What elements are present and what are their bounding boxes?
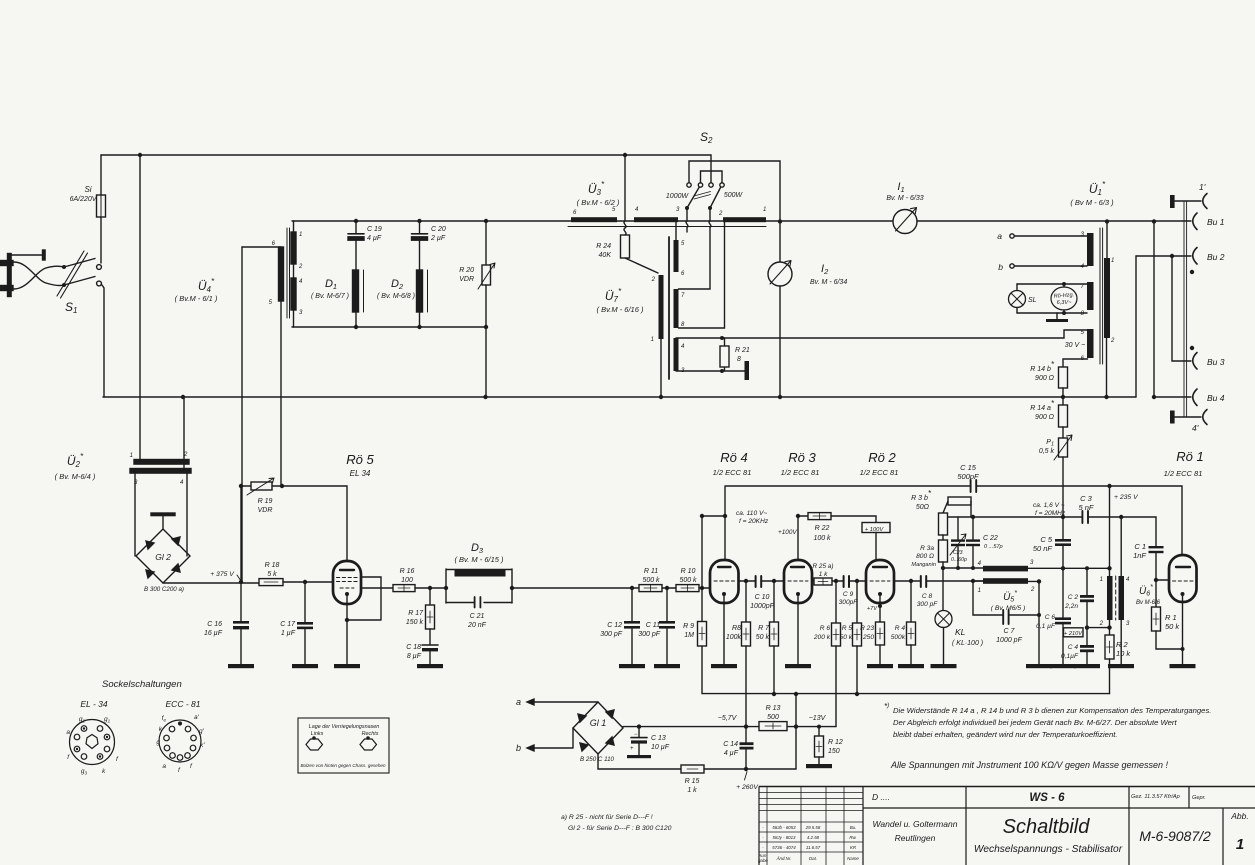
svg-text:800 Ω: 800 Ω bbox=[916, 553, 934, 560]
svg-text:M-6-9087/2: M-6-9087/2 bbox=[1139, 828, 1211, 844]
svg-text:2: 2 bbox=[1099, 621, 1104, 627]
svg-text:4: 4 bbox=[635, 207, 639, 213]
svg-text:3: 3 bbox=[299, 310, 303, 316]
svg-text:1nF: 1nF bbox=[1133, 551, 1146, 560]
svg-text:100 k: 100 k bbox=[813, 535, 831, 542]
svg-text:( Bv. M6/5 ): ( Bv. M6/5 ) bbox=[991, 605, 1026, 612]
svg-text:R 23: R 23 bbox=[860, 625, 874, 632]
svg-text:40K: 40K bbox=[599, 252, 612, 259]
svg-text:B 300 C200 a): B 300 C200 a) bbox=[144, 586, 184, 593]
svg-text:500W: 500W bbox=[724, 192, 744, 199]
svg-text:f = 20KHz: f = 20KHz bbox=[739, 518, 769, 525]
svg-text:( Bv. M - 6/15 ): ( Bv. M - 6/15 ) bbox=[454, 555, 504, 564]
svg-text:1000W: 1000W bbox=[666, 193, 690, 200]
svg-text:Rö 3: Rö 3 bbox=[788, 450, 816, 465]
svg-text:-: - bbox=[762, 845, 764, 850]
svg-text:C 17: C 17 bbox=[280, 621, 296, 628]
svg-text:8: 8 bbox=[681, 322, 685, 328]
svg-text:500 k: 500 k bbox=[679, 577, 697, 584]
svg-text:1 k: 1 k bbox=[819, 571, 828, 578]
svg-text:R 10: R 10 bbox=[681, 568, 696, 575]
svg-text:Si: Si bbox=[84, 185, 91, 194]
svg-text:C23: C23 bbox=[953, 550, 963, 556]
svg-text:Bv M-6/6: Bv M-6/6 bbox=[1136, 600, 1161, 606]
svg-text:16 µF: 16 µF bbox=[204, 630, 223, 637]
svg-text:R 16: R 16 bbox=[400, 568, 415, 575]
svg-text:6A/220V: 6A/220V bbox=[70, 196, 98, 203]
svg-text:C 22: C 22 bbox=[983, 535, 998, 542]
svg-text:0,1µF: 0,1µF bbox=[1061, 653, 1079, 660]
svg-text:2,2n: 2,2n bbox=[1064, 603, 1078, 610]
svg-text:3: 3 bbox=[1126, 621, 1130, 627]
svg-text:300 pF: 300 pF bbox=[638, 631, 661, 638]
svg-text:C 9: C 9 bbox=[843, 591, 854, 598]
svg-text:Ü5*: Ü5* bbox=[1003, 590, 1017, 604]
svg-text:5: 5 bbox=[1081, 330, 1085, 336]
svg-text:R 7: R 7 bbox=[758, 625, 770, 632]
svg-text:Gl 2 - für Serie D---F : B: Gl 2 - für Serie D---F : B 300 C120 bbox=[568, 825, 672, 832]
svg-text:4: 4 bbox=[978, 561, 982, 567]
svg-text:500: 500 bbox=[767, 714, 779, 721]
svg-text:C 15: C 15 bbox=[960, 463, 977, 472]
svg-text:Die Widerstände R 14 a , R 14: Die Widerstände R 14 a , R 14 b und R 3 … bbox=[893, 706, 1211, 715]
svg-text:Ü2*: Ü2* bbox=[67, 452, 84, 469]
svg-text:R 2: R 2 bbox=[1116, 640, 1129, 649]
svg-text:Bu 2: Bu 2 bbox=[1207, 252, 1225, 262]
svg-text:D1: D1 bbox=[325, 278, 337, 291]
svg-text:ca. 1,6 V ~: ca. 1,6 V ~ bbox=[1033, 502, 1065, 509]
svg-text:2: 2 bbox=[1030, 587, 1035, 593]
svg-text:Ü3*: Ü3* bbox=[588, 180, 605, 197]
svg-text:f = 20MHz: f = 20MHz bbox=[1035, 510, 1066, 517]
svg-text:1: 1 bbox=[651, 337, 654, 343]
svg-text:-: - bbox=[762, 835, 764, 840]
svg-text:150 k: 150 k bbox=[406, 619, 424, 626]
svg-text:Sockelschaltungen: Sockelschaltungen bbox=[102, 679, 182, 690]
svg-text:5736 - 4074: 5736 - 4074 bbox=[772, 845, 796, 850]
svg-text:*): *) bbox=[884, 702, 889, 711]
svg-text:f: f bbox=[178, 767, 181, 774]
svg-text:1: 1 bbox=[978, 588, 981, 594]
svg-text:3: 3 bbox=[676, 207, 680, 213]
svg-text:1/2 ECC 81: 1/2 ECC 81 bbox=[781, 468, 820, 477]
svg-text:D2: D2 bbox=[391, 278, 404, 291]
svg-text:R 17: R 17 bbox=[408, 610, 424, 617]
svg-text:300 pF: 300 pF bbox=[600, 631, 623, 638]
svg-text:a: a bbox=[162, 763, 166, 770]
svg-text:Rö 4: Rö 4 bbox=[720, 450, 747, 465]
svg-text:1: 1 bbox=[299, 232, 302, 238]
svg-text:C 16: C 16 bbox=[207, 621, 222, 628]
svg-text:C 3: C 3 bbox=[1080, 494, 1093, 503]
svg-text:100: 100 bbox=[401, 577, 413, 584]
svg-text:C 2: C 2 bbox=[1068, 594, 1079, 601]
svg-text:900 Ω: 900 Ω bbox=[1035, 414, 1055, 421]
svg-text:R 11: R 11 bbox=[644, 568, 658, 575]
svg-text:R 13: R 13 bbox=[766, 705, 781, 712]
svg-text:g3: g3 bbox=[81, 768, 88, 776]
svg-text:6: 6 bbox=[573, 210, 577, 216]
svg-text:C 4: C 4 bbox=[1068, 644, 1079, 651]
svg-text:250: 250 bbox=[862, 634, 874, 641]
svg-text:300 pF: 300 pF bbox=[917, 601, 939, 608]
svg-text:R 4: R 4 bbox=[895, 625, 906, 632]
svg-text:+ 235 V: + 235 V bbox=[1114, 494, 1139, 501]
svg-text:R 6: R 6 bbox=[820, 625, 831, 632]
svg-text:gabe: gabe bbox=[758, 858, 768, 863]
svg-text:1 µF: 1 µF bbox=[281, 630, 296, 637]
svg-text:f: f bbox=[190, 763, 193, 770]
svg-text:8: 8 bbox=[737, 356, 741, 363]
svg-text:( Bv.M - 6/1 ): ( Bv.M - 6/1 ) bbox=[175, 294, 218, 303]
svg-text:1': 1' bbox=[1199, 182, 1206, 192]
svg-text:+7V: +7V bbox=[867, 606, 878, 612]
svg-text:Ü4*: Ü4* bbox=[198, 277, 215, 294]
svg-text:Abb.: Abb. bbox=[1230, 811, 1249, 821]
svg-text:30 V ~: 30 V ~ bbox=[1065, 342, 1085, 349]
svg-text:Rö 1: Rö 1 bbox=[1176, 449, 1203, 464]
svg-text:C 19: C 19 bbox=[367, 226, 382, 233]
svg-text:+ 260V: + 260V bbox=[736, 784, 759, 791]
svg-text:3: 3 bbox=[1030, 560, 1034, 566]
svg-text:+: + bbox=[630, 746, 634, 752]
svg-text:R 19: R 19 bbox=[258, 498, 273, 505]
svg-text:R 9: R 9 bbox=[683, 623, 694, 630]
svg-text:C 12: C 12 bbox=[607, 622, 622, 629]
svg-text:C 6: C 6 bbox=[1045, 614, 1056, 621]
svg-text:200 k: 200 k bbox=[813, 634, 831, 641]
svg-text:g1: g1 bbox=[104, 716, 111, 724]
svg-text:g': g' bbox=[199, 728, 205, 735]
svg-text:Lage der Verriegelungsnasen: Lage der Verriegelungsnasen bbox=[309, 724, 380, 730]
svg-text:S2: S2 bbox=[700, 130, 713, 145]
svg-text:Ü7*: Ü7* bbox=[605, 287, 622, 304]
svg-text:1: 1 bbox=[130, 453, 133, 459]
svg-text:( Bv.M - 6/2 ): ( Bv.M - 6/2 ) bbox=[577, 198, 620, 207]
svg-text:8: 8 bbox=[1081, 311, 1085, 317]
svg-text:R 18: R 18 bbox=[265, 562, 280, 569]
svg-text:1/2 ECC 81: 1/2 ECC 81 bbox=[713, 468, 752, 477]
svg-text:b: b bbox=[998, 262, 1003, 272]
svg-text:8 µF: 8 µF bbox=[407, 653, 422, 660]
svg-text:SL: SL bbox=[1028, 297, 1037, 304]
svg-text:50 nF: 50 nF bbox=[1033, 544, 1053, 553]
svg-text:Wechselspannungs - Stabilisato: Wechselspannungs - Stabilisator bbox=[974, 844, 1123, 855]
svg-text:50 k: 50 k bbox=[840, 634, 853, 641]
svg-text:Gez. 11.3.57 Kfr/Ap: Gez. 11.3.57 Kfr/Ap bbox=[1131, 794, 1180, 800]
svg-text:VDR: VDR bbox=[258, 507, 273, 514]
svg-text:B 250 C 110: B 250 C 110 bbox=[580, 756, 614, 763]
svg-text:1000pF: 1000pF bbox=[750, 603, 774, 610]
svg-text:4 µF: 4 µF bbox=[367, 235, 382, 242]
svg-text:1/2 ECC 81: 1/2 ECC 81 bbox=[1164, 469, 1203, 478]
svg-text:500pF: 500pF bbox=[957, 472, 979, 481]
svg-text:b: b bbox=[516, 743, 521, 753]
svg-text:fe: fe bbox=[162, 715, 167, 723]
svg-text:Reutlingen: Reutlingen bbox=[895, 833, 936, 843]
svg-text:4.2.58: 4.2.58 bbox=[807, 835, 820, 840]
svg-text:( Bv. M-6/4 ): ( Bv. M-6/4 ) bbox=[55, 472, 96, 481]
svg-text:900 Ω: 900 Ω bbox=[1035, 375, 1055, 382]
svg-text:0 ...57p: 0 ...57p bbox=[984, 544, 1003, 550]
svg-text:P1: P1 bbox=[1046, 439, 1054, 448]
svg-text:Dat.: Dat. bbox=[809, 856, 817, 861]
svg-text:a': a' bbox=[194, 714, 200, 721]
svg-text:Ü1*: Ü1* bbox=[1089, 180, 1106, 197]
svg-text:4: 4 bbox=[299, 279, 303, 285]
svg-text:Bv. M - 6/33: Bv. M - 6/33 bbox=[886, 195, 923, 202]
svg-text:C 11: C 11 bbox=[646, 622, 660, 629]
svg-text:1: 1 bbox=[1100, 577, 1103, 583]
svg-text:C 10: C 10 bbox=[755, 594, 770, 601]
svg-text:g2: g2 bbox=[79, 716, 86, 724]
svg-text:R 3a: R 3a bbox=[920, 545, 934, 552]
svg-text:D3: D3 bbox=[471, 542, 484, 555]
svg-text:2: 2 bbox=[651, 277, 656, 283]
svg-text:Ü6*: Ü6* bbox=[1139, 584, 1153, 598]
svg-text:bleibt dabei erhalten, geänder: bleibt dabei erhalten, geändert wird nur… bbox=[893, 730, 1118, 739]
svg-text:Alle Spannungen mit Jnstrument: Alle Spannungen mit Jnstrument 100 KΩ/V … bbox=[890, 760, 1169, 770]
svg-text:( KL·100 ): ( KL·100 ) bbox=[952, 640, 983, 647]
svg-text:Bu.: Bu. bbox=[850, 825, 857, 830]
svg-text:1: 1 bbox=[763, 207, 766, 213]
svg-text:Name: Name bbox=[847, 856, 859, 861]
svg-text:50 k: 50 k bbox=[756, 634, 770, 641]
svg-text:+ 210V: + 210V bbox=[1064, 631, 1083, 637]
svg-text:( Bv. M-6/8 ): ( Bv. M-6/8 ) bbox=[377, 293, 415, 300]
svg-text:C 8: C 8 bbox=[922, 593, 933, 600]
svg-text:5: 5 bbox=[612, 207, 616, 213]
svg-text:1M: 1M bbox=[684, 632, 694, 639]
svg-text:R 14 a*: R 14 a* bbox=[1030, 399, 1055, 412]
svg-text:f: f bbox=[116, 756, 119, 763]
svg-text:2: 2 bbox=[718, 211, 723, 217]
svg-text:Rw.: Rw. bbox=[849, 835, 856, 840]
svg-text:Rö 2: Rö 2 bbox=[868, 450, 896, 465]
svg-text:1: 1 bbox=[1111, 258, 1114, 264]
svg-text:k': k' bbox=[200, 742, 205, 749]
svg-text:29.5.58: 29.5.58 bbox=[805, 825, 821, 830]
svg-text:Änd.Nr.: Änd.Nr. bbox=[776, 856, 792, 861]
svg-text:R 5: R 5 bbox=[842, 625, 853, 632]
svg-text:ca. 110 V~: ca. 110 V~ bbox=[736, 510, 767, 517]
svg-text:f: f bbox=[67, 754, 70, 761]
svg-text:S1: S1 bbox=[65, 300, 77, 315]
svg-text:−13V: −13V bbox=[809, 715, 827, 722]
svg-text:0...60p: 0...60p bbox=[951, 557, 967, 563]
svg-text:R 25 a): R 25 a) bbox=[813, 563, 834, 570]
svg-text:50 k: 50 k bbox=[1165, 622, 1180, 631]
svg-text:500k: 500k bbox=[891, 634, 906, 641]
svg-text:0,1 µF: 0,1 µF bbox=[1036, 623, 1056, 630]
svg-text:4': 4' bbox=[1192, 423, 1199, 433]
svg-text:Manganin: Manganin bbox=[911, 562, 936, 568]
svg-text:300pF: 300pF bbox=[839, 599, 859, 606]
svg-text:Wandel u. Goltermann: Wandel u. Goltermann bbox=[873, 819, 958, 829]
svg-text:1 k: 1 k bbox=[687, 787, 697, 794]
svg-text:KL: KL bbox=[955, 627, 966, 637]
svg-text:R 14 b*: R 14 b* bbox=[1030, 360, 1055, 373]
svg-text:R 15: R 15 bbox=[685, 778, 700, 785]
svg-text:4: 4 bbox=[1126, 577, 1130, 583]
svg-text:4: 4 bbox=[681, 344, 685, 350]
svg-text:Rö 5: Rö 5 bbox=[346, 452, 374, 467]
svg-text:R 12: R 12 bbox=[828, 739, 843, 746]
svg-text:-: - bbox=[762, 825, 764, 830]
svg-text:0,5 k: 0,5 k bbox=[1039, 448, 1055, 455]
svg-text:Links: Links bbox=[311, 731, 324, 737]
svg-text:500 k: 500 k bbox=[642, 577, 660, 584]
svg-text:R 22: R 22 bbox=[815, 525, 830, 532]
svg-text:150: 150 bbox=[828, 748, 840, 755]
svg-text:Gepr.: Gepr. bbox=[1192, 795, 1206, 801]
svg-text:I2: I2 bbox=[821, 263, 829, 276]
svg-text:R 1: R 1 bbox=[1165, 613, 1177, 622]
svg-text:Bu 4: Bu 4 bbox=[1207, 393, 1225, 403]
svg-text:2: 2 bbox=[1110, 338, 1115, 344]
svg-text:VDR: VDR bbox=[459, 276, 474, 283]
svg-text:ECC - 81: ECC - 81 bbox=[166, 699, 201, 709]
svg-text:58Jy - 8013: 58Jy - 8013 bbox=[773, 835, 797, 840]
svg-text:6: 6 bbox=[272, 241, 276, 247]
svg-text:20 nF: 20 nF bbox=[467, 622, 487, 629]
svg-text:C 7: C 7 bbox=[1004, 628, 1016, 635]
svg-text:11.6.57: 11.6.57 bbox=[806, 845, 821, 850]
svg-text:10 k: 10 k bbox=[1116, 649, 1131, 658]
svg-text:7: 7 bbox=[681, 293, 685, 299]
svg-text:58Jb - 6053: 58Jb - 6053 bbox=[772, 825, 796, 830]
svg-text:Bolzen von hinten gegen Chass.: Bolzen von hinten gegen Chass. gesehen bbox=[300, 763, 385, 768]
svg-text:( Bv.M - 6/16 ): ( Bv.M - 6/16 ) bbox=[597, 305, 644, 314]
svg-text:Bu 3: Bu 3 bbox=[1207, 357, 1225, 367]
svg-text:Gl 2: Gl 2 bbox=[155, 552, 171, 562]
svg-text:D ....: D .... bbox=[872, 792, 890, 802]
svg-text:4: 4 bbox=[1081, 264, 1085, 270]
svg-text:6,3V~: 6,3V~ bbox=[1057, 300, 1073, 306]
svg-text:Rechts: Rechts bbox=[362, 731, 379, 737]
svg-text:C 21: C 21 bbox=[470, 613, 485, 620]
svg-text:a: a bbox=[997, 231, 1002, 241]
svg-text:EL - 34: EL - 34 bbox=[80, 699, 108, 709]
svg-text:R 3 b*: R 3 b* bbox=[911, 489, 932, 502]
svg-text:1000 pF: 1000 pF bbox=[996, 637, 1022, 644]
svg-text:2: 2 bbox=[183, 452, 188, 458]
svg-text:R 24: R 24 bbox=[596, 243, 611, 250]
svg-text:I1: I1 bbox=[897, 181, 904, 194]
svg-text:R 21: R 21 bbox=[735, 347, 750, 354]
svg-text:EL 34: EL 34 bbox=[350, 469, 371, 478]
svg-text:100k: 100k bbox=[726, 634, 742, 641]
svg-text:Schaltbild: Schaltbild bbox=[1003, 816, 1091, 838]
svg-text:a) R 25 - nicht für Serie: a) R 25 - nicht für Serie D---F ! bbox=[561, 814, 653, 821]
svg-text:5 nF: 5 nF bbox=[1078, 503, 1093, 512]
svg-text:5: 5 bbox=[269, 300, 273, 306]
svg-text:1: 1 bbox=[1236, 836, 1244, 853]
svg-text:6: 6 bbox=[681, 271, 685, 277]
svg-text:WS - 6: WS - 6 bbox=[1029, 792, 1065, 804]
svg-text:k: k bbox=[102, 768, 106, 775]
svg-text:a: a bbox=[66, 729, 70, 736]
svg-text:+100V: +100V bbox=[778, 529, 797, 536]
svg-text:( Bv M - 6/3 ): ( Bv M - 6/3 ) bbox=[1070, 198, 1114, 207]
svg-text:3: 3 bbox=[1081, 232, 1085, 238]
svg-text:7: 7 bbox=[1081, 284, 1085, 290]
svg-text:g: g bbox=[156, 739, 160, 746]
svg-text:KR: KR bbox=[850, 845, 857, 850]
svg-text:10 µF: 10 µF bbox=[651, 744, 670, 751]
svg-text:C 14: C 14 bbox=[723, 741, 738, 748]
svg-text:R8: R8 bbox=[732, 625, 741, 632]
svg-text:−: − bbox=[634, 732, 638, 738]
svg-text:+ 100V: + 100V bbox=[865, 527, 885, 533]
svg-text:C 13: C 13 bbox=[651, 735, 666, 742]
svg-text:( Bv. M-6/7 ): ( Bv. M-6/7 ) bbox=[311, 293, 349, 300]
svg-text:Bv. M - 6/34: Bv. M - 6/34 bbox=[810, 279, 847, 286]
svg-text:2: 2 bbox=[298, 264, 303, 270]
svg-text:5 k: 5 k bbox=[267, 571, 277, 578]
svg-text:1/2 ECC 81: 1/2 ECC 81 bbox=[860, 468, 899, 477]
svg-text:2 µF: 2 µF bbox=[430, 235, 446, 242]
svg-text:+ 375 V: + 375 V bbox=[210, 571, 235, 578]
svg-text:C 1: C 1 bbox=[1134, 542, 1146, 551]
svg-text:4 µF: 4 µF bbox=[724, 750, 739, 757]
svg-text:5: 5 bbox=[681, 241, 685, 247]
svg-text:a: a bbox=[516, 697, 521, 707]
svg-text:4: 4 bbox=[180, 480, 184, 486]
svg-text:Bu 1: Bu 1 bbox=[1207, 217, 1225, 227]
svg-text:3: 3 bbox=[134, 480, 138, 486]
svg-text:50Ω: 50Ω bbox=[916, 504, 930, 511]
svg-text:C 18: C 18 bbox=[406, 644, 421, 651]
svg-text:R 20: R 20 bbox=[459, 267, 474, 274]
svg-text:Gl 1: Gl 1 bbox=[590, 718, 607, 728]
svg-text:C 20: C 20 bbox=[431, 226, 446, 233]
svg-text:Der Abgleich erfolgt individue: Der Abgleich erfolgt individuell bei jed… bbox=[893, 718, 1177, 727]
svg-text:−5,7V: −5,7V bbox=[718, 715, 738, 722]
svg-text:C 5: C 5 bbox=[1040, 535, 1053, 544]
